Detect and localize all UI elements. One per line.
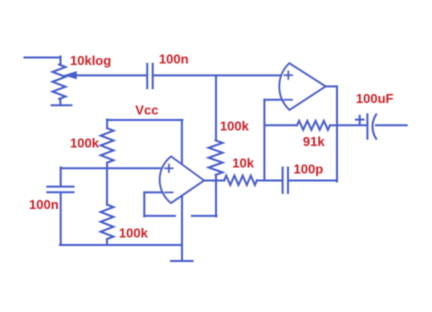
capacitor C4 curved plate <box>373 114 377 138</box>
wire R3 to output node B <box>215 175 217 181</box>
wire to U1 - input <box>144 191 162 193</box>
wire feedback bottom right segment <box>192 215 217 217</box>
resistor R2 100k (lower left) <box>101 205 114 240</box>
wire U2 - leg down to node B row <box>263 100 265 181</box>
wire left chain down to C2 <box>60 168 62 187</box>
svg-text:91k: 91k <box>303 134 325 149</box>
svg-text:100n: 100n <box>29 197 59 212</box>
wire bottom rail <box>60 244 182 246</box>
wire node C to C4 <box>337 124 367 126</box>
wire output node C vertical <box>336 86 338 181</box>
wire top-left input stub <box>24 57 60 59</box>
svg-text:Vcc: Vcc <box>135 102 158 117</box>
wire - leg to R5 <box>264 124 297 126</box>
wire C2 to ground rail <box>60 193 62 245</box>
capacitor C4 100uF polarized, straight plate <box>366 114 368 138</box>
wire Vcc to R1 <box>106 120 108 129</box>
wire C1 to U2 + input, node A <box>154 74 282 76</box>
pot bottom terminal bar <box>52 104 72 106</box>
wire R1 to + row <box>106 163 108 169</box>
op-amp U1 (middle) <box>160 157 204 204</box>
wire U1 + input row <box>61 167 162 169</box>
wire + row to R2 <box>106 168 108 205</box>
capacitor C1 100n (top) <box>146 64 148 88</box>
resistor R1 100k (upper left) <box>101 128 114 163</box>
svg-text:100k: 100k <box>220 119 250 134</box>
capacitor C3 100p <box>282 168 284 193</box>
wire C4 to output <box>376 124 407 126</box>
wire R4 to C3 <box>257 180 281 182</box>
wire pot bottom stub <box>59 99 61 105</box>
svg-text:10klog: 10klog <box>70 53 111 68</box>
wire U1 negative supply pin to ground <box>181 196 183 262</box>
C4 plus polarity mark <box>356 119 364 121</box>
wire U2 - input <box>264 99 282 101</box>
resistor R4 10k <box>224 176 257 185</box>
svg-text:100uF: 100uF <box>356 91 394 106</box>
pot wiper arrow <box>64 71 77 79</box>
svg-text:100k: 100k <box>119 226 149 241</box>
wire C3 to U2 output leg <box>289 180 337 182</box>
svg-text:10k: 10k <box>232 155 254 170</box>
svg-text:100n: 100n <box>159 52 189 67</box>
svg-text:100p: 100p <box>294 162 324 177</box>
wire node B feedback down <box>215 181 217 217</box>
svg-text:100k: 100k <box>70 136 100 151</box>
capacitor C2 100n (left) <box>47 186 73 188</box>
wire R5 to output node C <box>330 124 337 126</box>
potentiometer VR1 10klog <box>53 65 66 100</box>
ground <box>171 260 193 262</box>
resistor R3 100k (middle vertical) <box>209 140 223 175</box>
wire R2 to bottom rail <box>106 239 108 245</box>
wire U1 output to node B <box>204 180 224 182</box>
op-amp U2 (right) <box>279 63 325 110</box>
Vcc rail wire <box>107 119 182 121</box>
wire wiper to C1 <box>77 74 147 76</box>
resistor R5 91k <box>297 121 330 130</box>
wire U2 output <box>326 85 338 87</box>
wire feedback bottom left segment (gap hop) <box>144 215 175 217</box>
wire Vcc supply pin to U1 <box>181 120 183 164</box>
wire feedback up leg <box>143 192 145 216</box>
wire node A down to R3 <box>215 75 217 140</box>
